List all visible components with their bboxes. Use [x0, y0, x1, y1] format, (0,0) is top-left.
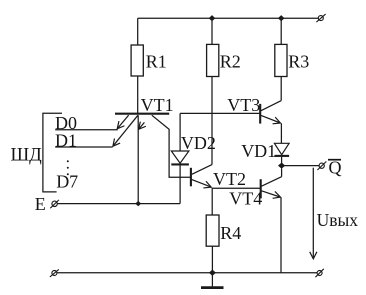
ellipsis dots D2..D6	[67, 160, 69, 175]
wire E line	[57, 203, 180, 205]
terminal output Q	[317, 162, 326, 171]
wire top power rail	[138, 17, 319, 19]
wire VT1 emitter 3 down to E line	[137, 115, 139, 203]
arrow Uvyh output voltage	[312, 168, 314, 259]
svg-text:VD1: VD1	[241, 141, 276, 161]
node output junction	[278, 163, 285, 169]
transistor VT4 emitter	[262, 191, 281, 197]
svg-text:ШД: ШД	[11, 145, 43, 165]
node junction E line / VT1 emitter 3	[135, 201, 141, 206]
svg-text:VT1: VT1	[141, 95, 174, 115]
svg-text:VT3: VT3	[227, 95, 260, 115]
transistor VT4 collector	[262, 177, 282, 187]
svg-text:R1: R1	[146, 52, 167, 72]
transistor VT2 emitter	[192, 180, 211, 188]
svg-text:VD2: VD2	[181, 133, 216, 153]
wire input D0	[55, 129, 117, 131]
bracket input bus	[43, 113, 62, 192]
resistor R4	[206, 215, 219, 246]
wire R2 top	[211, 18, 213, 44]
transistor VT1 emitter 2 (to D1)	[113, 115, 138, 146]
transistor VT1 emitter 1 (to D0)	[117, 115, 128, 129]
wire bottom ground rail	[57, 272, 317, 274]
wire VT3 emitter to VD1	[280, 123, 282, 143]
terminal top-right power	[316, 14, 325, 22]
transistor VT3 base bar	[259, 104, 261, 124]
svg-text:R3: R3	[288, 52, 309, 72]
svg-text:VT2: VT2	[213, 169, 246, 189]
wire output node down to VT4 collector	[281, 169, 283, 177]
svg-text:R2: R2	[220, 52, 241, 72]
transistor VT3 collector	[261, 101, 281, 111]
svg-text:Uвых: Uвых	[317, 210, 359, 230]
transistor VT1 collector	[152, 115, 190, 177]
transistor VT1 base bar	[115, 113, 169, 115]
svg-text:VT4: VT4	[229, 189, 262, 209]
svg-text:E: E	[35, 194, 46, 214]
wire R3 bottom to VT3 collector	[280, 77, 282, 101]
wire output to terminal	[282, 165, 320, 167]
terminal bottom-right	[315, 269, 323, 277]
svg-text:R4: R4	[220, 223, 241, 243]
wire VD2 cathode down to E line	[179, 165, 181, 203]
diode VD2	[171, 151, 189, 164]
transistor VT2 collector	[192, 165, 212, 175]
terminal E input	[50, 200, 59, 208]
node junction top rail / R2 column	[209, 15, 216, 21]
resistor R1	[131, 45, 143, 76]
wire R1 top	[137, 18, 139, 45]
ground symbol	[201, 273, 224, 288]
wire VT2 emitter to R4	[211, 188, 213, 215]
diode VD1	[274, 143, 289, 156]
resistor R3	[275, 44, 287, 76]
transistor VT2 base bar	[190, 168, 192, 187]
transistor VT3 emitter	[261, 115, 280, 123]
wire R2 bottom to VT2 collector	[211, 77, 213, 165]
wire R3 top	[280, 18, 282, 44]
transistor VT1 emitter 3 arrow (to E)	[139, 122, 145, 129]
resistor R2	[207, 44, 219, 76]
wire VT3 base (node with VD2 anode, crosses R2 column)	[180, 112, 260, 114]
wire VT4 emitter down to ground rail	[280, 197, 282, 272]
wire VD2 anode from VT3 base line	[179, 113, 181, 151]
node junction top rail / R3 column	[278, 15, 285, 21]
label Q with overline	[328, 158, 342, 178]
transistor VT4 base bar	[260, 179, 262, 198]
node junction ground rail / R4	[209, 270, 216, 276]
wire R4 bottom	[211, 246, 213, 273]
wire R1 bottom to VT1 base	[137, 76, 139, 113]
svg-text:Q: Q	[329, 158, 342, 178]
terminal bottom-left	[50, 269, 59, 277]
wire VD1 cathode to output node	[281, 157, 283, 166]
wire input D1	[55, 146, 112, 148]
wire VT2 emitter to VT4 base	[212, 187, 260, 189]
